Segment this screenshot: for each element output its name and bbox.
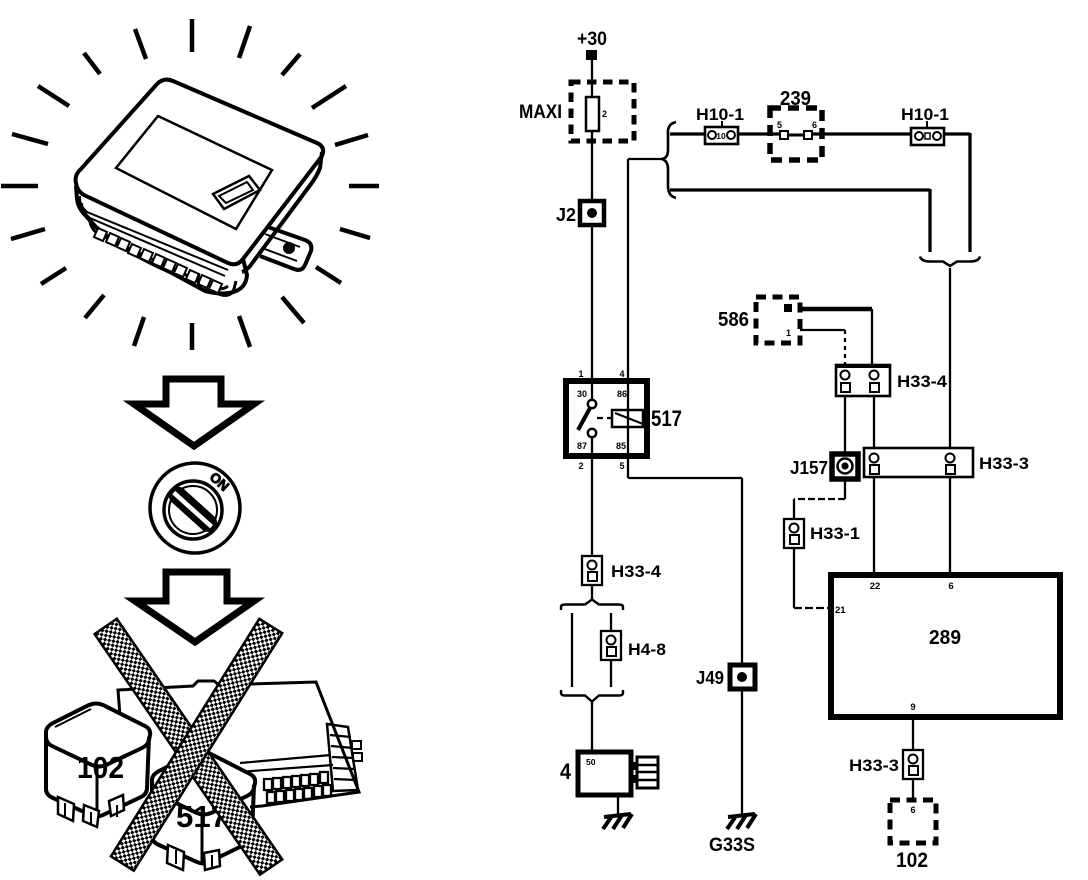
ground G33S	[727, 814, 756, 829]
starter motor 4	[560, 752, 658, 795]
svg-text:5: 5	[619, 461, 624, 471]
wire 586 pin1 to H33-4	[800, 329, 845, 331]
svg-text:586: 586	[718, 309, 749, 331]
svg-text:102: 102	[77, 750, 124, 785]
svg-text:MAXI: MAXI	[519, 102, 562, 123]
arrow down 2	[135, 572, 254, 642]
ignition switch ON symbol	[150, 463, 240, 553]
relay 102 illustration	[46, 704, 150, 828]
wire H33-4 to H33-3	[873, 396, 875, 448]
ground under 4	[603, 814, 632, 829]
wire 586 pin2 to H33-4	[800, 307, 872, 312]
svg-text:+30: +30	[577, 29, 607, 50]
wire J49 to G33S	[741, 690, 743, 814]
brace down	[920, 257, 980, 267]
wire 239 to H10-1 right	[812, 132, 911, 135]
wire H10-1 to 239	[738, 132, 779, 135]
svg-text:10: 10	[716, 131, 726, 141]
svg-text:21: 21	[835, 605, 846, 616]
svg-text:102: 102	[896, 849, 928, 872]
svg-text:J49: J49	[696, 668, 724, 688]
svg-text:517: 517	[651, 406, 682, 431]
svg-text:22: 22	[870, 581, 881, 592]
connector H4-8	[601, 631, 666, 660]
wire 517 pin2 to H33-4 single	[591, 455, 593, 556]
wire 517 pin5 to J49	[627, 455, 629, 478]
junction J157	[832, 454, 858, 479]
component 239	[770, 88, 822, 160]
wire +30 to MAXI fuse	[591, 60, 593, 97]
svg-text:4: 4	[560, 759, 572, 784]
component 102	[890, 800, 936, 872]
component 586	[718, 297, 800, 343]
wire MAXI fuse to J2	[591, 131, 593, 200]
svg-text:87: 87	[577, 441, 587, 451]
svg-text:H33-4: H33-4	[611, 562, 662, 581]
wire H10-1 right corner down	[944, 132, 970, 135]
connector H10-1 right	[901, 105, 949, 145]
wire H33-1 to 289 pin21	[793, 548, 795, 608]
wire H33-3 left pin to 289 pin22	[873, 477, 875, 573]
svg-text:5: 5	[777, 120, 782, 130]
wire brace lower branch	[670, 188, 930, 191]
arrow down 1	[134, 379, 254, 446]
svg-text:H4-8: H4-8	[628, 640, 666, 659]
wire brace to H33-3 right pin	[949, 268, 951, 448]
svg-text:50: 50	[586, 757, 596, 767]
wire 4 to ground	[617, 795, 619, 814]
svg-text:1: 1	[786, 328, 791, 338]
wire brace to relay 517 pin 4	[627, 159, 629, 380]
flash rays around ECU	[1, 19, 379, 350]
svg-text:30: 30	[577, 389, 587, 399]
wire branch left	[571, 613, 573, 687]
svg-text:H33-4: H33-4	[897, 372, 948, 391]
svg-text:6: 6	[812, 120, 817, 130]
connector H33-4 double	[836, 365, 948, 396]
junction J2	[580, 201, 604, 225]
svg-text:86: 86	[617, 389, 627, 399]
brace left	[662, 122, 676, 198]
svg-text:1: 1	[578, 369, 583, 379]
cross-out X band 2	[111, 619, 282, 871]
svg-text:H10-1: H10-1	[901, 105, 949, 124]
svg-text:H33-3: H33-3	[849, 756, 899, 775]
ECU slab behind relays	[118, 681, 362, 807]
wire 289 pin9 to H33-3	[912, 717, 914, 750]
svg-text:6: 6	[910, 805, 915, 815]
svg-text:J2: J2	[556, 205, 576, 225]
relay 517 illustration	[152, 752, 255, 871]
connector H33-3 single	[849, 750, 923, 779]
wire brace to H10-1	[670, 132, 706, 135]
svg-text:289: 289	[929, 627, 961, 649]
control unit 289	[831, 575, 1060, 717]
wire H33-3 right pin to 289 pin6	[949, 477, 951, 573]
svg-text:4: 4	[619, 369, 624, 379]
svg-text:85: 85	[616, 441, 626, 451]
wire J157 to H33-1	[844, 480, 846, 499]
splice bracket top	[561, 600, 623, 611]
svg-text:H33-1: H33-1	[810, 524, 860, 543]
wire J2 to relay 517 pin 1	[591, 225, 593, 380]
ECU control module illustration	[76, 80, 324, 296]
wire branch right through H4-8	[610, 613, 612, 631]
svg-text:9: 9	[910, 702, 915, 713]
cross-out X band 1	[95, 619, 283, 875]
connector H33-3 inline	[864, 448, 1029, 477]
svg-text:H33-3: H33-3	[979, 454, 1029, 473]
wire H33-4 single to splice bracket	[591, 585, 593, 601]
wire to starter 4	[591, 702, 593, 752]
svg-text:J157: J157	[790, 458, 828, 478]
connector H10-1 left	[696, 105, 744, 144]
fuse MAXI	[571, 82, 634, 141]
relay 517 schematic	[566, 369, 682, 471]
svg-text:ON: ON	[207, 469, 232, 494]
connector H33-4 single	[582, 556, 662, 585]
svg-text:2: 2	[602, 109, 607, 119]
wire H33-3 to 102	[912, 779, 914, 800]
connector H33-1	[784, 519, 860, 548]
svg-text:H10-1: H10-1	[696, 105, 744, 124]
wire branch to brace	[628, 158, 664, 160]
junction J49	[730, 665, 755, 689]
wire H33-4 to J157	[844, 396, 846, 453]
svg-text:G33S: G33S	[709, 835, 755, 856]
splice bracket bottom	[561, 690, 623, 702]
svg-text:2: 2	[578, 461, 583, 471]
svg-text:6: 6	[948, 581, 953, 592]
